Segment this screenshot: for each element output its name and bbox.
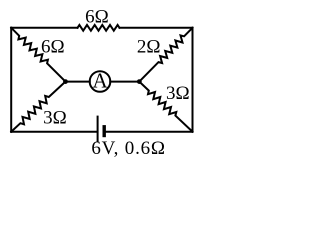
resistor R4 3ohm bottom-left diagonal	[11, 82, 65, 132]
wire: top-left segment	[11, 27, 77, 29]
battery B1 long plate (+)	[97, 116, 99, 143]
svg-text:6Ω: 6Ω	[85, 6, 109, 27]
svg-text:A: A	[93, 69, 109, 93]
resistor R3 2ohm top-right diagonal	[139, 28, 192, 82]
wire: top-right segment	[120, 27, 193, 29]
battery B1 short thick plate (-)	[102, 125, 105, 137]
wire: right side	[192, 28, 194, 132]
wire: left side	[10, 28, 12, 132]
ammeter A1 circle	[90, 71, 111, 92]
wire: bottom-left segment	[11, 131, 96, 133]
wire: bottom-right segment	[105, 131, 193, 133]
wire: node A to ammeter	[66, 81, 90, 83]
svg-text:6V, 0.6Ω: 6V, 0.6Ω	[91, 138, 166, 159]
resistor R2 6ohm top-left diagonal	[11, 28, 65, 82]
svg-text:3Ω: 3Ω	[166, 83, 190, 104]
svg-text:2Ω: 2Ω	[137, 37, 161, 58]
resistor R5 3ohm bottom-right diagonal	[139, 82, 192, 132]
node B junction dot	[137, 79, 142, 84]
svg-text:3Ω: 3Ω	[43, 108, 67, 129]
svg-text:6Ω: 6Ω	[41, 37, 65, 58]
node A junction dot	[63, 79, 68, 84]
wire: ammeter to node B	[110, 81, 139, 83]
resistor R1 6ohm top	[78, 25, 120, 31]
